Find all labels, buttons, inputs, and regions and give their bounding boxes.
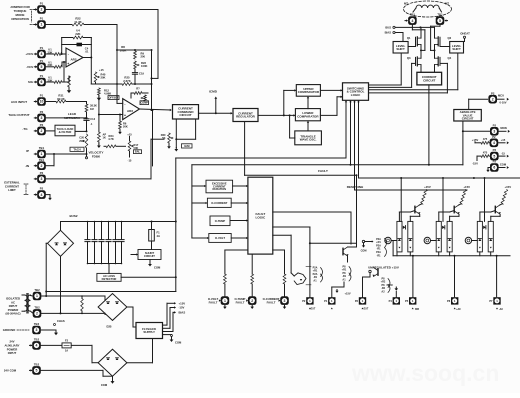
transistor Q1 [407, 36, 421, 46]
wire AR2 output [140, 109, 172, 111]
svg-text:P1: P1 [40, 46, 44, 50]
svg-text:BUS: BUS [385, 26, 391, 30]
wire LC to switching logic [320, 96, 342, 116]
terminal O-TEMP FAULT [235, 296, 257, 309]
svg-text:475: 475 [483, 137, 488, 141]
svg-text:SHIFT: SHIFT [396, 47, 405, 51]
svg-text:P1: P1 [40, 94, 44, 98]
svg-text:COM: COM [154, 266, 161, 270]
wire main dc rail top [61, 221, 176, 223]
label ISOLATED AC INPUT POWER [5, 297, 20, 316]
svg-text:DETECTOR: DETECTOR [102, 277, 117, 281]
resistor R12 [98, 88, 101, 95]
svg-text:C19: C19 [139, 72, 144, 76]
svg-text:+: + [67, 62, 69, 66]
wire terminal riser to output node [152, 110, 154, 166]
wire bus A y158 [176, 100, 347, 158]
terminal P4 square [389, 297, 400, 304]
bridge rectifier aux 1 [98, 294, 127, 321]
svg-text:MON: MON [500, 126, 506, 130]
wire CR to lower comparator [258, 114, 295, 116]
wire current circuit monitor drop [428, 85, 430, 165]
wire rail drop block 1 [400, 178, 402, 221]
terminal O-VOLT FAULT [208, 296, 229, 309]
wire to upper comparator bottom [307, 96, 309, 108]
svg-text:TB2: TB2 [34, 338, 40, 342]
svg-text:CHAS: CHAS [57, 319, 65, 323]
svg-text:Q3: Q3 [407, 56, 411, 60]
svg-text:SIG: SIG [28, 80, 34, 84]
bridge rectifier aux 2 [98, 349, 127, 376]
wire rail drop block 2 [442, 178, 444, 221]
varistor inrush [81, 295, 84, 314]
relay clamp symbol [291, 273, 306, 285]
resistor 1K to ground [97, 95, 106, 148]
wire bias to level shift [395, 33, 403, 42]
svg-text:(95-264VAC): (95-264VAC) [5, 312, 20, 316]
svg-text:P2: P2 [40, 110, 44, 114]
svg-text:BIAS: BIAS [385, 31, 392, 35]
terminal TB1-1 IP [26, 146, 46, 158]
terminal P2 MON [490, 123, 499, 135]
svg-text:AR2: AR2 [70, 58, 76, 62]
svg-text:-R1: -R1 [376, 254, 381, 257]
resistor R9 200 [134, 51, 146, 59]
resistor 20K -VCS input [46, 60, 66, 68]
wire Q3 source to current circuit [420, 65, 422, 73]
svg-text:82.3K: 82.3K [57, 97, 64, 101]
label R12 4.99K [104, 89, 111, 96]
capacitor bus C1 [85, 221, 90, 265]
block LOWER COMPARATOR [295, 109, 320, 121]
wire bridge2 to flyback [127, 339, 153, 363]
block AC LOSS DETECTOR [97, 273, 121, 281]
svg-text:EXT: EXT [364, 308, 369, 311]
op-amp AR1 [66, 48, 83, 67]
svg-text:3: 3 [284, 299, 286, 303]
terminal P1 square [324, 297, 335, 309]
wire flyback com [163, 335, 183, 345]
boxed label OFFSET [108, 96, 119, 100]
svg-text:0-10V: 0-10V [500, 101, 507, 105]
ground COM stack [361, 240, 374, 252]
svg-text:P1: P1 [40, 74, 44, 78]
svg-text:MCU: MCU [498, 93, 504, 97]
wire bus B to AVC [462, 121, 464, 165]
svg-text:6: 6 [493, 166, 495, 170]
wire CR fault drop [244, 122, 246, 176]
node OHEAT [460, 31, 470, 41]
svg-text:-15: -15 [128, 159, 132, 163]
wire ac loss output [121, 276, 176, 278]
svg-text:C13: C13 [90, 117, 95, 121]
svg-text:COM: COM [361, 250, 367, 253]
wire main dc rail bottom [88, 264, 122, 274]
svg-text:Q1: Q1 [407, 36, 411, 40]
capacitor C19 [132, 69, 144, 84]
svg-text:1: 1 [224, 299, 226, 303]
label -15 out [498, 151, 509, 157]
wire flyback BIAS out [163, 311, 177, 331]
label +15V rail [472, 138, 481, 143]
svg-text:OHEAT: OHEAT [460, 31, 470, 35]
svg-text:.01: .01 [85, 50, 89, 54]
fuse F2 [41, 339, 71, 353]
terminal TB2-1 [31, 288, 42, 300]
svg-text:R?: R? [136, 87, 140, 91]
svg-text:P2: P2 [493, 148, 497, 152]
resistor o-volt fault pullup [224, 250, 227, 296]
wire to P6 square [454, 256, 456, 297]
transformer T1 [22, 294, 31, 314]
wire AVC mon tap [462, 130, 490, 132]
label +15V and ground [335, 290, 350, 296]
resistor 20K SIG input [46, 76, 64, 84]
svg-text:-: - [124, 103, 125, 107]
svg-text:5: 5 [41, 65, 43, 69]
svg-text:BUS2: BUS2 [69, 214, 77, 218]
label MON [498, 126, 510, 133]
wire tach output [46, 117, 87, 119]
motor winding [413, 5, 442, 12]
label flyback -15V [179, 306, 185, 310]
svg-text:LOGIC: LOGIC [256, 215, 267, 219]
svg-text:FAULT: FAULT [209, 301, 218, 305]
wire to P5 square [412, 256, 414, 298]
svg-text:P1: P1 [40, 59, 44, 63]
terminal P1-2 [34, 2, 46, 14]
svg-text:10: 10 [40, 100, 44, 104]
ground CCC [174, 148, 178, 152]
potentiometer comp [141, 95, 146, 101]
svg-text:INPUT: INPUT [8, 351, 17, 355]
svg-text:+15V: +15V [504, 185, 511, 189]
svg-text:TB1: TB1 [437, 13, 443, 17]
lead network chain [84, 102, 97, 133]
svg-text:5: 5 [36, 369, 38, 373]
svg-text:BAL: BAL [135, 151, 141, 154]
svg-text:+15V: +15V [424, 185, 431, 189]
opto driver block 1 [397, 185, 431, 252]
ground below R12 [97, 96, 101, 101]
capacitor bus C5 [113, 221, 118, 265]
terminal P1-10 AUX INPUT [11, 94, 46, 106]
wire SIG to non-inverting node [63, 61, 69, 82]
label LEAD NETWORK [64, 112, 80, 120]
svg-text:3: 3 [493, 130, 495, 134]
svg-text:+15V: +15V [463, 185, 470, 189]
svg-text:475: 475 [483, 151, 488, 155]
svg-text:+15V: +15V [345, 292, 351, 296]
potentiometer R40 20K offset [94, 68, 106, 84]
svg-text:+15: +15 [501, 138, 506, 142]
terminal P7 square [489, 297, 503, 311]
wire Q3 drain [420, 50, 422, 58]
svg-text:TB2: TB2 [34, 322, 40, 326]
wire AR1 feedback top [61, 38, 92, 58]
terminal P2 -15 [489, 148, 499, 160]
block SWITCHING CONTROL LOGIC [343, 83, 369, 101]
terminal input block 1 [385, 237, 397, 243]
svg-text:20K: 20K [123, 125, 128, 129]
label 24V COM [4, 369, 17, 373]
svg-text:2.67K: 2.67K [123, 79, 130, 83]
svg-text:-TG: -TG [22, 127, 28, 131]
wire UC to switching logic [320, 89, 342, 91]
op-amp AR2 [123, 99, 140, 120]
wire ext limit a [46, 139, 164, 179]
svg-text:COMP: COMP [140, 102, 148, 105]
svg-text:O-CURRENT: O-CURRENT [211, 201, 227, 205]
block TACH LOAD & FILTER [55, 125, 75, 136]
resistor feedback 22K [73, 29, 83, 39]
svg-text:DIR: DIR [415, 308, 419, 311]
svg-text:P3: P3 [355, 299, 359, 303]
terminal input block 2 [424, 237, 436, 243]
wire flyback +15V out [163, 302, 177, 325]
svg-text:RESET/INH: RESET/INH [347, 185, 364, 189]
svg-text:FAULT: FAULT [236, 301, 245, 305]
svg-text:4.99K: 4.99K [104, 92, 111, 96]
block LEVEL SHIFT left [393, 42, 408, 54]
svg-text:D2B: D2B [106, 326, 111, 329]
svg-text:20K: 20K [79, 139, 84, 143]
wire Q1 drain [420, 27, 422, 38]
svg-text:4.7K: 4.7K [108, 137, 114, 141]
wire Q2 drain/source [434, 27, 436, 50]
wire to excessive current duration [192, 185, 206, 187]
svg-text:4A: 4A [157, 234, 160, 238]
opto driver block 2 [436, 185, 470, 252]
svg-text:4: 4 [36, 344, 38, 348]
svg-text:P7: P7 [489, 299, 493, 303]
resistor R31 82.3K [46, 94, 87, 103]
transistor Q4 [435, 56, 452, 66]
svg-text:OPERATION: OPERATION [11, 17, 29, 21]
terminal P2 square fault out [302, 297, 316, 310]
wire input to R22 [46, 24, 72, 26]
opto driver block 3 [477, 185, 511, 252]
capacitor bus C6 [119, 221, 124, 265]
node ICMD [209, 90, 218, 114]
terminal TB2-4 24V [30, 338, 41, 350]
bridge rectifier main [48, 230, 74, 256]
svg-text:+15V: +15V [472, 138, 479, 142]
ground COM shunt [148, 260, 161, 270]
wire CR branch to upper comparator [284, 89, 297, 115]
capacitor bus C4 [106, 221, 111, 265]
block O-TEMP [210, 216, 230, 226]
svg-text:Q2: Q2 [448, 36, 452, 40]
terminal P1-1 [34, 17, 46, 29]
resistor 475 +15 [481, 137, 489, 144]
resistor 20K +VCS input [46, 48, 66, 56]
terminal TB2-2 [31, 306, 42, 318]
wire top feedback y50 [117, 49, 153, 51]
svg-text:2: 2 [251, 299, 253, 303]
wire inverting bus y84 [91, 83, 151, 85]
svg-text:4: 4 [493, 141, 495, 145]
terminal P1-4 +VCS [25, 46, 45, 58]
svg-text:100K: 100K [141, 64, 147, 68]
terminal P1-6 SIG [28, 74, 46, 86]
wire O-TEMP to fault logic [230, 219, 248, 221]
svg-text:3: 3 [41, 116, 43, 120]
wire LC input to osc [289, 114, 295, 138]
wire fault logic out right upper [273, 212, 351, 244]
wire driver bottom rail [393, 241, 510, 257]
svg-text:22K: 22K [75, 32, 80, 36]
svg-text:COM: COM [386, 283, 392, 287]
wire fault status feed [225, 249, 285, 251]
svg-text:P2: P2 [40, 187, 44, 191]
svg-text:O-TEMP: O-TEMP [215, 219, 226, 223]
transistor P3 driver [372, 268, 378, 277]
svg-text:P2: P2 [40, 123, 44, 127]
svg-text:5: 5 [493, 154, 495, 158]
wire tach load out [75, 130, 87, 132]
wire shunt input arrow [131, 253, 138, 255]
svg-text:TB1: TB1 [39, 158, 45, 162]
svg-text:20K: 20K [48, 63, 53, 67]
wire transistor emitter to stack [347, 256, 349, 262]
svg-text:1K: 1K [103, 136, 106, 140]
wire CCC bottom loop [175, 119, 195, 148]
wire osc to lower comparator [307, 121, 309, 131]
terminal TB1-4 [408, 13, 417, 25]
svg-text:LOGIC: LOGIC [351, 93, 361, 97]
svg-text:CIRCUIT: CIRCUIT [144, 254, 155, 258]
svg-text:P5: P5 [405, 299, 409, 303]
svg-text:-15: -15 [501, 151, 505, 155]
svg-text:AR2: AR2 [127, 109, 133, 113]
svg-text:2: 2 [41, 129, 43, 133]
svg-text:P4: P4 [389, 299, 393, 303]
label R8 100K [120, 45, 127, 52]
svg-text:P6: P6 [447, 299, 451, 303]
label RESET/INH [347, 185, 364, 189]
svg-text:& FILTER: & FILTER [59, 130, 73, 134]
svg-text:TB1: TB1 [410, 13, 416, 17]
label MCU 0-10V [497, 93, 509, 104]
svg-text:AUX INPUT: AUX INPUT [11, 100, 27, 104]
svg-text:24V COM: 24V COM [4, 369, 17, 373]
boxed label COMP [140, 101, 149, 105]
note EXTERNAL CURRENT LIMIT [4, 181, 28, 195]
resistor R6 20K [118, 115, 128, 135]
transistor Q3 [407, 56, 421, 66]
terminal TB1-5 [436, 13, 445, 25]
wire IP to velocity node [46, 153, 87, 155]
svg-text:CIRCUIT: CIRCUIT [179, 113, 191, 117]
wire fault logic out right lower [273, 235, 291, 273]
resistor R22 11.3K [72, 17, 84, 26]
wire flyback -15V out [163, 306, 177, 328]
capacitor bus C2 [92, 221, 97, 265]
svg-text:EXT: EXT [311, 308, 316, 311]
svg-text:REGULATOR: REGULATOR [236, 115, 256, 119]
terminal P2 ext limit b [34, 187, 46, 199]
wire velocity node to AR2 +input [99, 114, 123, 116]
wire to O-VOLT [192, 237, 209, 239]
boxed label TACH [70, 147, 84, 151]
svg-text:GROUND: GROUND [3, 328, 15, 332]
wire bridge2 ground [101, 376, 115, 387]
svg-text:MT: MT [445, 1, 449, 5]
ground ext limit [46, 195, 52, 201]
svg-text:+: + [124, 114, 126, 118]
wire Q4 leg [434, 50, 436, 72]
wire ac line 1 [41, 243, 105, 297]
wire RESET/INH [353, 100, 467, 190]
svg-text:-15V: -15V [179, 306, 185, 310]
terminal P6 square [447, 297, 461, 311]
wire to P2 square [273, 227, 357, 298]
node VELOCITY FDBK [85, 150, 103, 159]
svg-text:Q4: Q4 [448, 56, 452, 60]
label GROUND [3, 328, 29, 332]
block FLYBACK SUPPLY [136, 323, 163, 339]
wire ac line 2 [41, 256, 105, 314]
svg-text:-IN: -IN [25, 164, 29, 168]
wire to O-CURRENT [192, 202, 208, 204]
svg-text:FAULT: FAULT [318, 169, 328, 173]
wire to P7 square [496, 256, 498, 297]
label UNREGULATED +15V [368, 265, 399, 269]
svg-text:COMPARATOR: COMPARATOR [298, 90, 320, 94]
svg-text:5K: 5K [162, 136, 165, 140]
wire feedback right vertical x151.5 [151, 50, 153, 111]
label FAULT [318, 169, 328, 173]
fuse F1 4A [149, 222, 160, 250]
resistor R24 4.7K [104, 134, 126, 148]
boxed label BAL [134, 150, 142, 154]
terminal TB2-5 24V COM [30, 363, 41, 375]
svg-text:UNREGULATED +15V: UNREGULATED +15V [368, 265, 399, 269]
svg-text:COM: COM [175, 341, 182, 345]
svg-text:COMPARATOR: COMPARATOR [297, 114, 319, 118]
svg-text:1: 1 [36, 294, 38, 298]
wire FAULT line [245, 174, 358, 176]
svg-text:IP: IP [26, 149, 29, 153]
svg-text:3: 3 [41, 177, 43, 181]
svg-text:P2: P2 [493, 123, 497, 127]
terminal P1-5 -VCS [26, 59, 46, 71]
transistor Q2 [435, 36, 452, 46]
svg-text:-15V: -15V [472, 162, 478, 166]
svg-text:20K: 20K [48, 78, 53, 82]
svg-text:P2: P2 [40, 171, 44, 175]
block O-CURRENT [207, 198, 231, 207]
potentiometer R17 50K balance [127, 132, 139, 162]
label flyback BIAS [179, 311, 186, 315]
label 24V AUXILIARY POWER INPUT [5, 340, 20, 355]
svg-text:P1: P1 [324, 299, 328, 303]
block CURRENT REGULATOR [233, 109, 258, 122]
wire bus B y164.8 [192, 164, 463, 166]
pin stack P2A [306, 266, 323, 285]
wire bus rail [395, 26, 434, 28]
svg-text:P2: P2 [302, 299, 306, 303]
svg-text:50K: 50K [134, 146, 139, 150]
block SHUNT CIRCUIT [138, 250, 161, 260]
wire bridge top [60, 222, 62, 231]
motor MT dashed outline [404, 1, 452, 17]
block ABSOLUTE VALUE CIRCUIT [454, 110, 482, 122]
terminal P2-3 TACH OUTPUT [8, 110, 45, 122]
resistor comp network [131, 87, 148, 98]
svg-text:TB1: TB1 [39, 146, 45, 150]
